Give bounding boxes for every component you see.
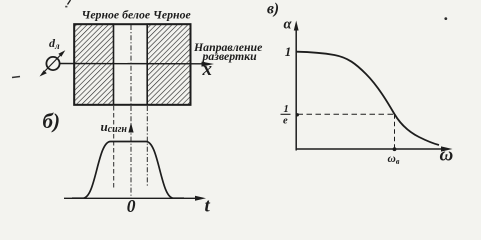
svg-text:1: 1 [285,44,292,59]
svg-text:е: е [283,116,288,127]
svg-text:ω: ω [440,145,454,166]
svg-text:Черное белое Черное: Черное белое Черное [82,8,191,22]
svg-text:t: t [205,196,211,217]
svg-text:1: 1 [284,104,289,115]
svg-text:развертки: развертки [202,49,258,63]
svg-text:в): в) [267,1,279,18]
svg-text:α: α [284,16,293,32]
svg-text:б): б) [43,109,60,133]
svg-text:0: 0 [127,196,136,216]
